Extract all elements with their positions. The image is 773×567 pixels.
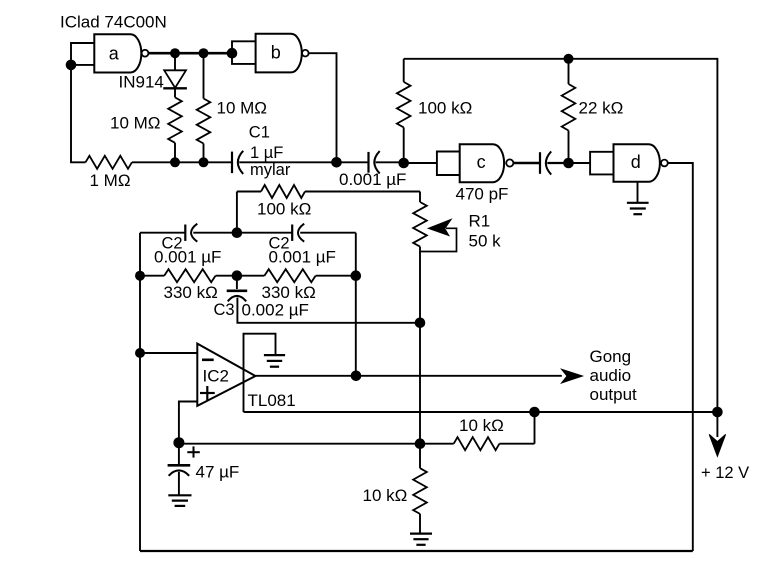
label + 12 V xyxy=(701,464,749,482)
diode IN914 xyxy=(163,70,187,88)
node 22 k&#937; column bottom xyxy=(563,158,574,169)
wire 330k middle node to C3 xyxy=(236,276,238,289)
label 0.001 uF (right C2) xyxy=(269,247,336,266)
wire IC2 output xyxy=(255,375,561,377)
ground below gate d xyxy=(627,203,649,214)
wire 47uF node to 10k junction xyxy=(179,443,420,445)
label 100 k&#937; (vertical) xyxy=(418,99,472,118)
wire gate d output down right side xyxy=(668,163,693,551)
nand gate d xyxy=(614,144,660,182)
wire C3 to R1 node xyxy=(237,298,420,323)
svg-text:10 MΩ: 10 MΩ xyxy=(217,98,268,117)
label C2 (right) xyxy=(269,235,290,253)
potentiometer R1 element xyxy=(413,202,427,247)
svg-text:TL081: TL081 xyxy=(248,391,296,410)
label 1 M&#937; xyxy=(90,171,131,190)
svg-text:Gong: Gong xyxy=(590,347,632,366)
R1 wiper arrow xyxy=(420,219,457,251)
svg-text:0.001 µF: 0.001 µF xyxy=(154,247,221,266)
label TL081 xyxy=(248,391,296,410)
node left column 330k row xyxy=(135,271,145,281)
wire gate a inputs down to 1 M&#937; resistor xyxy=(71,65,86,162)
label audio xyxy=(590,366,632,385)
power rail top xyxy=(404,59,718,412)
node +12V rail xyxy=(712,407,723,418)
wire 10k up to rail xyxy=(534,412,536,444)
svg-text:50 k: 50 k xyxy=(469,232,502,251)
node gate b input tie xyxy=(227,48,238,59)
arrow gong audio output xyxy=(562,369,583,383)
label 50 k xyxy=(469,232,502,251)
svg-text:IClad 74C00N: IClad 74C00N xyxy=(60,13,167,32)
capacitor 0.001 &#181;F (coupling) xyxy=(369,151,380,173)
wire C2 left to middle node xyxy=(193,232,237,234)
svg-text:10 kΩ: 10 kΩ xyxy=(363,486,408,505)
resistor 100 k&#937; (vertical) xyxy=(397,59,411,163)
resistor 10 M&#937; (below diode) xyxy=(168,97,182,142)
wire gate b node to 0.001 cap xyxy=(337,161,369,163)
node 10k feedback rail xyxy=(529,407,540,418)
label IC2 xyxy=(203,367,229,386)
resistor 10 M&#937; (right of diode) xyxy=(197,99,211,144)
svg-text:330 kΩ: 330 kΩ xyxy=(262,283,316,302)
node 330k right xyxy=(351,270,362,281)
capacitor 47 &#181;F xyxy=(168,465,191,476)
svg-text:1 MΩ: 1 MΩ xyxy=(90,171,131,190)
ground at IC2 xyxy=(264,355,285,367)
svg-text:audio: audio xyxy=(590,366,632,385)
svg-text:470 pF: 470 pF xyxy=(456,184,509,203)
wire middle node to C2 (right) xyxy=(237,232,292,234)
label 0.002 uF xyxy=(242,301,309,320)
node at gate a inputs xyxy=(66,60,77,71)
nand gate b xyxy=(256,34,302,73)
node 10 M&#937; column top xyxy=(199,48,209,58)
wire top node to diode xyxy=(174,53,176,70)
svg-text:0.001 µF: 0.001 µF xyxy=(339,170,406,189)
node 10k junction xyxy=(415,438,426,449)
plus sign of 47 uF xyxy=(187,446,200,457)
label 22 k&#937; xyxy=(579,99,624,118)
wire left column to C2 (left) xyxy=(140,232,185,234)
svg-text:1 µF: 1 µF xyxy=(250,144,283,162)
label Gong xyxy=(590,347,632,366)
resistor 330 k&#937; (right) xyxy=(237,269,356,282)
svg-text:10 kΩ: 10 kΩ xyxy=(459,416,504,435)
capacitor 470 pF xyxy=(540,151,551,174)
node output / feedback xyxy=(351,371,362,382)
wire C2 right to right column xyxy=(300,232,356,234)
wire 47 uF to ground xyxy=(178,472,180,495)
bubble of gate d xyxy=(661,160,668,167)
wire IC2 pin to ground xyxy=(244,334,276,412)
svg-text:0.002 µF: 0.002 µF xyxy=(242,301,309,320)
node diode column top xyxy=(170,48,180,58)
label 1 uF xyxy=(250,144,283,162)
label mylar xyxy=(250,161,291,179)
label C2 (left) xyxy=(162,235,183,253)
op-amp IC2 triangle xyxy=(197,344,255,406)
capacitor C2 (right) xyxy=(292,224,304,242)
resistor 1 M&#937; (horizontal) xyxy=(86,156,132,169)
wire node to 47 uF xyxy=(178,443,180,465)
svg-text:100 kΩ: 100 kΩ xyxy=(257,200,311,219)
node diode column bottom xyxy=(170,157,180,167)
wire inverting input xyxy=(140,352,197,354)
label C3 xyxy=(214,301,235,319)
wire gate b output down to main line xyxy=(309,53,337,162)
wire non-inverting input xyxy=(179,402,197,443)
svg-text:0.001 µF: 0.001 µF xyxy=(269,247,336,266)
svg-text:100 kΩ: 100 kΩ xyxy=(418,99,472,118)
label 330 k&#937; (right) xyxy=(262,283,316,302)
bubble of gate a xyxy=(142,50,149,57)
svg-text:d: d xyxy=(631,152,641,172)
node R1 column / C3 wire xyxy=(415,318,426,329)
wire 22k node to gate d inputs xyxy=(569,162,591,164)
wire R1 down to C3 node xyxy=(419,247,421,323)
svg-text:mylar: mylar xyxy=(250,161,291,179)
nand gate a (1/4 74C00N) xyxy=(94,34,141,72)
svg-text:47 µF: 47 µF xyxy=(196,462,240,481)
capacitor C3 xyxy=(227,291,248,302)
wire 1 M&#937; to C1 xyxy=(132,161,232,163)
wire 10 M&#937; to bottom line xyxy=(174,143,176,163)
label 47 uF xyxy=(196,462,240,481)
svg-text:10 MΩ: 10 MΩ xyxy=(110,114,161,133)
label 0.001 uF xyxy=(339,170,406,189)
label 10 k&#937; (horizontal) xyxy=(459,416,504,435)
label 470 pF xyxy=(456,184,509,203)
gate d input tie wire xyxy=(590,152,613,175)
plus sign of IC2 xyxy=(200,386,215,400)
svg-text:+ 12 V: + 12 V xyxy=(701,464,749,482)
resistor 10 k&#937; (vertical) xyxy=(413,444,427,533)
wire C1 to gate b node xyxy=(239,161,336,163)
ground below 47 uF xyxy=(168,495,191,506)
node C2 middle xyxy=(232,227,243,238)
node 47uF top xyxy=(173,437,184,448)
label 10 k&#937; (vertical) xyxy=(363,486,408,505)
node 100 k&#937; column bottom xyxy=(398,158,409,169)
wire gate d to ground xyxy=(637,182,639,203)
wire second 10 M&#937; to bottom line xyxy=(203,144,205,163)
wire 100 k&#937; down to R1 xyxy=(419,192,421,203)
svg-text:IN914: IN914 xyxy=(119,73,164,92)
wire C2 column up to 100 k&#937; xyxy=(236,192,238,233)
label C1 xyxy=(249,123,270,141)
node second column bottom xyxy=(199,157,209,167)
svg-text:C1: C1 xyxy=(249,123,270,141)
wire feedback column xyxy=(355,233,357,376)
resistor 100 k&#937; (horizontal) xyxy=(237,185,420,198)
svg-text:output: output xyxy=(590,385,638,404)
label 10 M&#937; (left) xyxy=(110,114,161,133)
arrow +12 V xyxy=(709,412,725,456)
nand gate c xyxy=(460,144,504,182)
minus sign of IC2 xyxy=(202,358,214,361)
wire R1 node down to 10k node xyxy=(419,323,421,444)
label 0.001 uF (left C2) xyxy=(154,247,221,266)
wire 0.001 cap to 100k node xyxy=(376,161,404,163)
label 10 M&#937; (right) xyxy=(217,98,268,117)
wire 100k node to gate c inputs xyxy=(404,162,437,164)
label 330 k&#937; (left) xyxy=(164,283,218,302)
capacitor C1 xyxy=(232,151,243,174)
wire gate c output to cap xyxy=(513,162,540,164)
svg-text:22 kΩ: 22 kΩ xyxy=(579,99,624,118)
label IN914 xyxy=(119,73,164,92)
gate b input tie wire xyxy=(232,41,256,64)
wire 470 pF cap to 22k node xyxy=(547,162,568,164)
svg-text:330 kΩ: 330 kΩ xyxy=(164,283,218,302)
node gate b output junction xyxy=(331,157,342,168)
node left column op-amp input xyxy=(135,348,145,358)
wire gate a output to gate b inputs xyxy=(148,52,232,55)
bubble of gate b xyxy=(302,50,309,57)
label 100 k&#937; (horizontal) xyxy=(257,200,311,219)
node 330k middle xyxy=(232,270,243,281)
gate c input tie wire xyxy=(437,152,460,176)
resistor 22 k&#937; (vertical) xyxy=(562,59,576,163)
svg-text:c: c xyxy=(477,152,486,172)
capacitor C2 (left) xyxy=(185,224,197,242)
label IClad 74C00N xyxy=(60,13,167,32)
bubble of gate c xyxy=(506,159,513,166)
label R1 xyxy=(469,212,491,231)
svg-text:b: b xyxy=(271,43,281,63)
resistor 10 k&#937; (horizontal) xyxy=(420,437,535,450)
svg-text:R1: R1 xyxy=(469,212,491,231)
wire top node down to second 10 M&#937; xyxy=(203,53,205,98)
svg-text:IC2: IC2 xyxy=(203,367,229,386)
wire supply rail (mid) xyxy=(244,411,718,413)
label output xyxy=(590,385,638,404)
svg-text:a: a xyxy=(109,44,120,64)
wire bottom rail xyxy=(140,550,693,552)
gate a input tie wire xyxy=(71,43,94,65)
resistor 330 k&#937; (left) xyxy=(140,269,237,282)
wire left column xyxy=(139,233,141,551)
node 22 k&#937; rail top xyxy=(564,54,574,64)
wire diode to 10 M&#937; xyxy=(174,88,176,97)
svg-text:C3: C3 xyxy=(214,301,235,319)
ground below vertical 10k xyxy=(410,534,432,545)
